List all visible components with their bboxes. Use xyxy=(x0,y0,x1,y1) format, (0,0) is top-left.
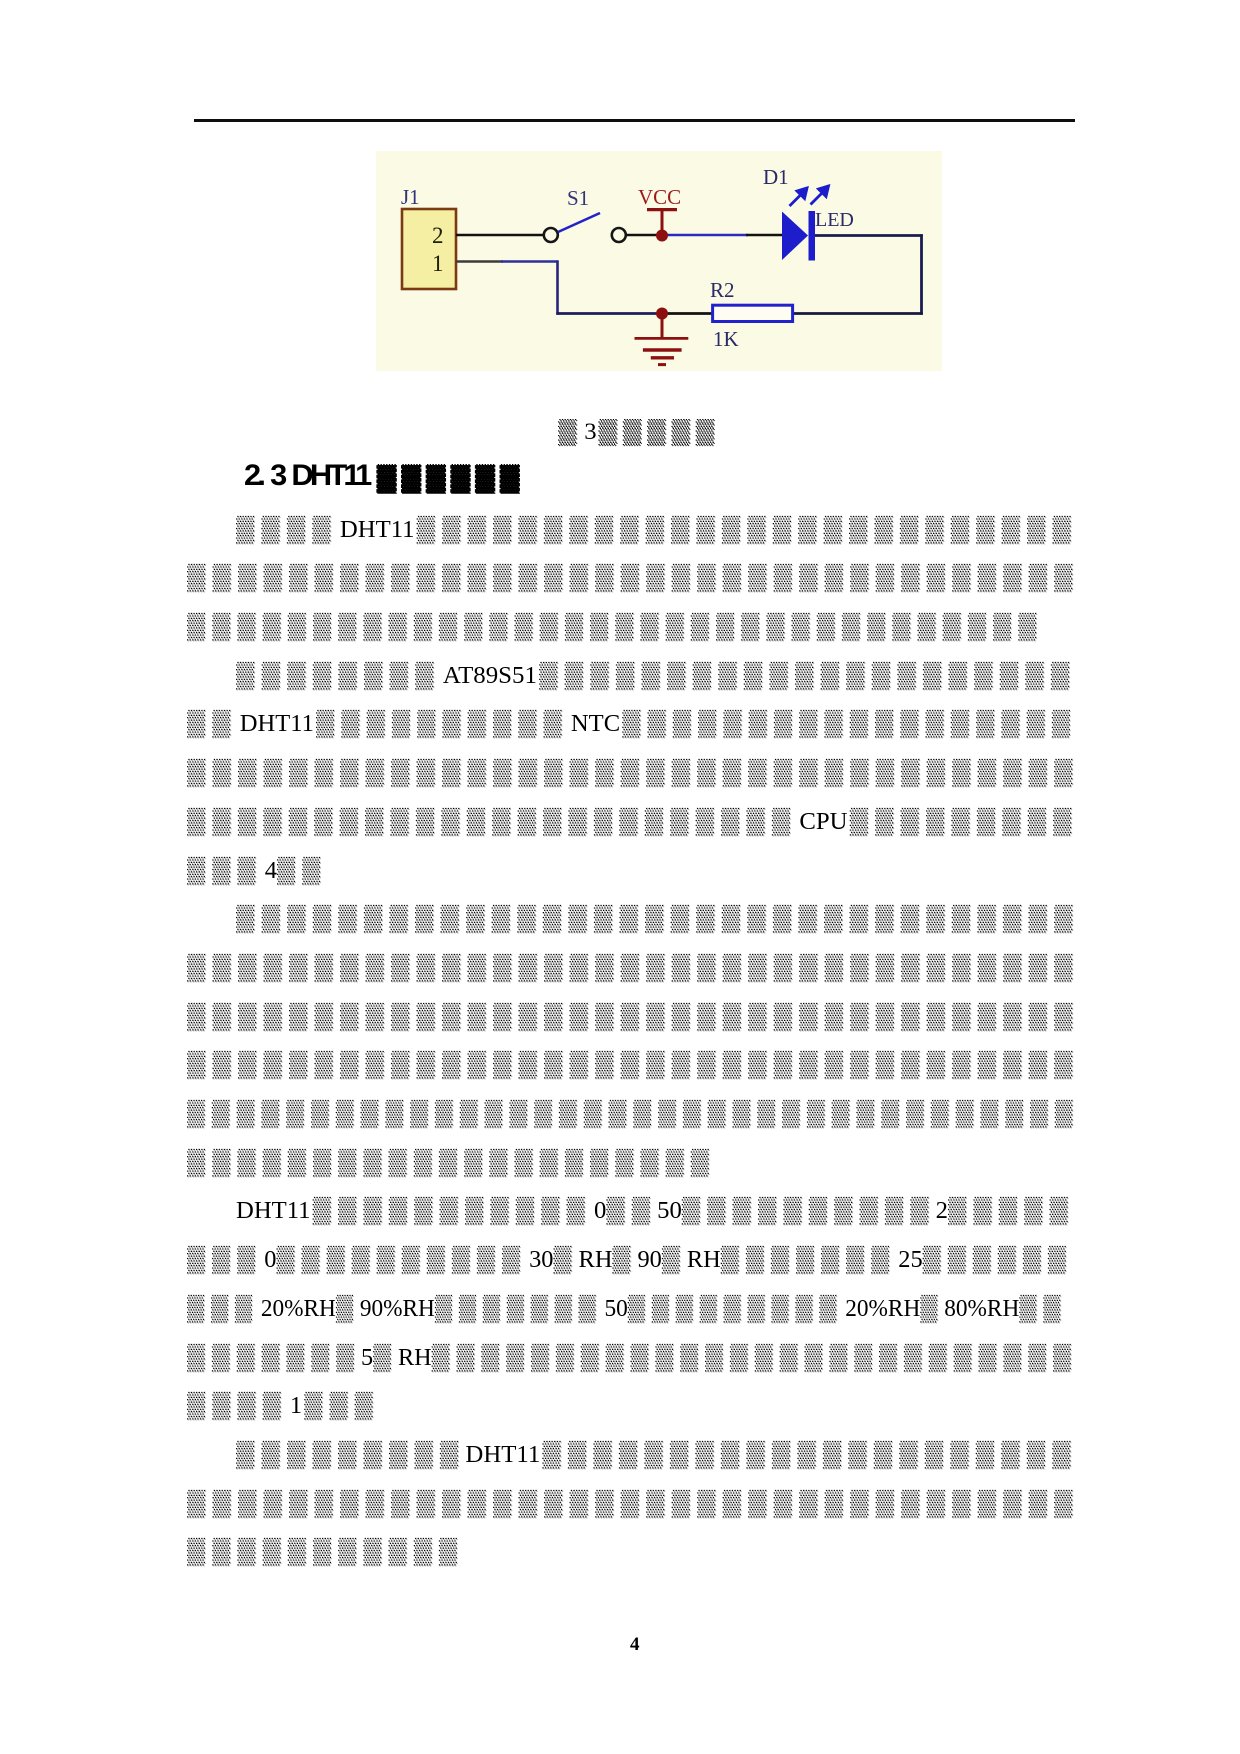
svg-text:1: 1 xyxy=(432,251,444,276)
wire: LED cathode to right edge xyxy=(815,234,923,237)
page number xyxy=(630,1634,640,1656)
LED D1 cathode bar xyxy=(809,211,816,261)
svg-text:J1: J1 xyxy=(401,185,420,209)
header rule xyxy=(194,119,1075,122)
wire: switch to VCC junction xyxy=(626,234,668,237)
junction node at ground xyxy=(656,308,668,320)
svg-text:VCC: VCC xyxy=(638,185,681,209)
circuit schematic figure xyxy=(376,151,942,371)
wire: bottom run to ground junction xyxy=(556,312,662,315)
svg-text:2: 2 xyxy=(432,223,444,248)
svg-text:LED: LED xyxy=(815,209,854,231)
ground symbol xyxy=(635,319,689,365)
svg-text:S1: S1 xyxy=(567,186,589,210)
svg-text:1K: 1K xyxy=(713,327,739,351)
wire: resistor to right corner xyxy=(793,312,923,315)
svg-text:R2: R2 xyxy=(710,278,735,302)
wire: VCC junction to LED anode (navy then black) xyxy=(668,234,748,237)
svg-text:D1: D1 xyxy=(763,165,789,189)
wire: right vertical xyxy=(920,234,923,315)
switch S1 blade xyxy=(558,213,600,232)
LED arrow 1 xyxy=(790,188,808,206)
wire: pin1 vertical drop xyxy=(556,260,559,314)
connector J1 xyxy=(402,209,456,289)
resistor R2 body xyxy=(713,305,793,321)
VCC power symbol xyxy=(647,210,677,233)
LED arrow 2 xyxy=(811,186,829,205)
figure caption 图3 电源电路图 xyxy=(558,420,709,444)
LED D1 diode triangle xyxy=(782,212,808,261)
wire: ground junction to resistor R2 xyxy=(662,312,713,315)
schematic background xyxy=(376,151,942,371)
wire: J1 pin1 horizontal (grey-black then navy) xyxy=(456,260,503,262)
switch S1 right contact xyxy=(612,228,626,242)
section heading 2.3 DHT11 温湿度传感器 xyxy=(244,461,512,491)
wire: J1 pin2 to switch S1 xyxy=(456,234,544,237)
junction node at VCC xyxy=(656,230,668,242)
switch S1 left contact xyxy=(544,228,558,242)
